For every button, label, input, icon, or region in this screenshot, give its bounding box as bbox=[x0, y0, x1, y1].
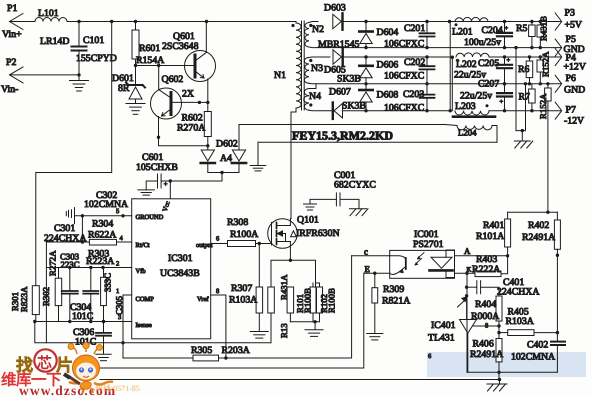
svg-text:22u/25v: 22u/25v bbox=[460, 91, 492, 102]
capacitor C401 224CHXA bbox=[476, 281, 478, 294]
wire N2b bbox=[309, 46, 561, 49]
svg-text:E: E bbox=[365, 264, 370, 274]
svg-text:2SC3648: 2SC3648 bbox=[162, 41, 199, 52]
svg-text:R401: R401 bbox=[483, 220, 504, 231]
svg-text:R222A: R222A bbox=[472, 264, 500, 275]
resistor R301 bbox=[32, 286, 39, 315]
svg-text:R000A: R000A bbox=[471, 311, 499, 322]
svg-text:TL431: TL431 bbox=[428, 333, 455, 344]
wire snubber top bbox=[238, 125, 240, 151]
svg-text:P3: P3 bbox=[565, 8, 575, 19]
svg-text:R2491A: R2491A bbox=[470, 349, 503, 360]
resistor R401 bbox=[505, 219, 511, 247]
wire source spread bbox=[271, 260, 316, 287]
ground D601 bbox=[126, 103, 145, 105]
svg-text:L202: L202 bbox=[456, 59, 477, 70]
diode D602b bbox=[232, 150, 245, 161]
svg-text:R100B: R100B bbox=[303, 288, 313, 313]
resistor R406 bbox=[496, 339, 502, 362]
resistor R152A bbox=[537, 60, 544, 72]
wire emitter bbox=[207, 79, 209, 102]
ground input bbox=[78, 75, 80, 80]
ground C306 bbox=[96, 353, 111, 355]
wire bbox=[344, 56, 452, 58]
resistor R431B bbox=[537, 25, 544, 37]
resistor R152A bbox=[539, 55, 542, 58]
svg-text:C207: C207 bbox=[478, 79, 499, 90]
svg-text:R100B: R100B bbox=[327, 288, 337, 313]
svg-text:R101A: R101A bbox=[476, 231, 504, 242]
svg-text:Q101: Q101 bbox=[297, 215, 319, 226]
svg-text:FEY15.3,RM2.2KD: FEY15.3,RM2.2KD bbox=[292, 129, 393, 143]
capacitor C305 333C bbox=[103, 268, 105, 278]
capacitor C205 22u/25v bbox=[503, 55, 506, 58]
svg-text:COMP: COMP bbox=[136, 296, 155, 303]
resistor R307 bbox=[256, 287, 263, 313]
svg-text:D602: D602 bbox=[216, 139, 238, 150]
svg-text:R154A: R154A bbox=[136, 55, 164, 66]
resistor R309 R821A bbox=[374, 273, 376, 288]
svg-text:P6: P6 bbox=[566, 73, 576, 84]
wire bbox=[489, 110, 561, 112]
ground C001 right bbox=[350, 208, 367, 210]
svg-text:IC301: IC301 bbox=[168, 253, 193, 264]
winding N4 bbox=[304, 89, 309, 111]
inductor L204 bbox=[445, 125, 457, 126]
svg-text:224CHXA: 224CHXA bbox=[497, 287, 539, 298]
wire pin8 bbox=[211, 295, 226, 358]
capacitor C302 102CMNA bbox=[71, 210, 73, 218]
diode D603 bbox=[333, 14, 342, 28]
node Q601 collector bbox=[205, 20, 208, 23]
diode D606 bbox=[365, 57, 367, 66]
diode D608 bbox=[365, 84, 367, 90]
node L201 left bbox=[448, 20, 451, 23]
resistor R302 bbox=[55, 278, 62, 305]
transistor Q601 2SC3648 bbox=[185, 51, 216, 82]
diode D605 SK3B bbox=[333, 50, 342, 64]
diode D607 SK3B bbox=[334, 104, 343, 118]
wire bbox=[10, 21, 36, 23]
choke core bar bbox=[453, 115, 495, 118]
wire comp loop bbox=[35, 322, 271, 343]
svg-text:N1: N1 bbox=[274, 70, 286, 81]
svg-text:C202: C202 bbox=[404, 57, 425, 68]
connector P2 bbox=[10, 67, 24, 83]
wire bus C bbox=[100, 379, 500, 381]
resistor R403 R222A bbox=[475, 271, 501, 277]
node R601 top bbox=[134, 20, 137, 23]
svg-text:C402: C402 bbox=[527, 340, 548, 351]
node C101 top bbox=[77, 20, 80, 23]
svg-text:C201: C201 bbox=[404, 23, 425, 34]
resistor R404 R000A bbox=[496, 296, 502, 321]
svg-text:R601: R601 bbox=[139, 43, 160, 54]
resistor C305box bbox=[101, 277, 107, 305]
resistor R601 R154A bbox=[132, 30, 139, 59]
wire divider top bbox=[508, 211, 558, 213]
wire bus B bbox=[99, 273, 364, 368]
capacitor C101 bbox=[78, 22, 80, 47]
svg-text:R7: R7 bbox=[519, 92, 531, 103]
wire bbox=[498, 321, 500, 339]
svg-text:LR14D: LR14D bbox=[40, 36, 69, 47]
wire pin6 bbox=[211, 243, 228, 245]
connector P7 bbox=[555, 102, 562, 119]
svg-text:8R: 8R bbox=[118, 83, 130, 94]
resistor R13 bbox=[287, 287, 294, 313]
ground R309 bbox=[367, 333, 383, 335]
svg-text:Rt/Ct: Rt/Ct bbox=[136, 242, 150, 249]
svg-text:P7: P7 bbox=[566, 105, 576, 116]
wire Vcc rail bbox=[161, 173, 222, 182]
wire bbox=[10, 74, 80, 76]
svg-text:R406: R406 bbox=[473, 339, 494, 350]
capacitor C303 223C bbox=[69, 268, 71, 291]
svg-text:Vfb: Vfb bbox=[136, 268, 146, 275]
op-amp U IC001 PS2701 box bbox=[390, 250, 455, 278]
wire bbox=[344, 21, 562, 23]
wire vertical pair2 bbox=[451, 57, 453, 110]
svg-text:c: c bbox=[364, 247, 368, 257]
wire sense bottom bbox=[290, 321, 319, 323]
wire D602 bottoms bbox=[208, 165, 239, 173]
svg-text:R6: R6 bbox=[518, 64, 530, 75]
svg-text:155CPYD: 155CPYD bbox=[76, 53, 117, 64]
node bbox=[364, 55, 367, 58]
svg-text:R431B: R431B bbox=[539, 16, 549, 41]
svg-text:+: + bbox=[507, 57, 511, 64]
wire bbox=[135, 22, 137, 31]
wire bbox=[501, 256, 508, 274]
svg-text:C203: C203 bbox=[403, 89, 424, 100]
wire base Q601 bbox=[136, 65, 194, 67]
svg-text:R622A: R622A bbox=[88, 230, 116, 241]
wire pin1 bbox=[123, 295, 132, 358]
svg-text:+: + bbox=[164, 181, 168, 188]
op-amp U IC301 UC3843B box bbox=[132, 199, 211, 339]
node base bbox=[134, 64, 137, 67]
svg-text:K: K bbox=[467, 267, 472, 274]
svg-text:IRFR630N: IRFR630N bbox=[296, 228, 340, 239]
svg-text:P2: P2 bbox=[6, 57, 16, 68]
resistor R401 R101A bbox=[507, 212, 509, 219]
transistor Q602 2X bbox=[151, 88, 182, 119]
resistor R431B bbox=[539, 20, 542, 23]
wire K drop bbox=[466, 273, 468, 372]
svg-text:101C: 101C bbox=[72, 311, 93, 322]
wire c402 bbox=[556, 346, 558, 372]
resistor R5 bbox=[529, 25, 536, 37]
svg-text:105CHXB: 105CHXB bbox=[136, 162, 178, 173]
svg-text:PS2701: PS2701 bbox=[413, 239, 444, 250]
resistor R602 R270A bbox=[204, 112, 211, 137]
svg-text:R5: R5 bbox=[516, 23, 528, 34]
capacitor C207 22u/25v bbox=[503, 82, 506, 85]
wire Q602 collector bbox=[158, 66, 160, 90]
wire N2a bbox=[309, 22, 318, 23]
svg-text:R272A: R272A bbox=[48, 250, 58, 276]
wire snubber rail bottom bbox=[258, 141, 497, 143]
node L202 left bbox=[451, 56, 454, 59]
svg-text:R270A: R270A bbox=[177, 123, 205, 134]
resistor R431A bbox=[268, 287, 275, 313]
wire opto A bbox=[455, 255, 508, 257]
svg-text:+: + bbox=[500, 99, 504, 106]
svg-text:R103A: R103A bbox=[229, 295, 257, 306]
resistor R302 R272A bbox=[58, 268, 60, 279]
resistor R308 R100A bbox=[228, 241, 256, 247]
ground C001 left bbox=[309, 199, 311, 203]
svg-text:8: 8 bbox=[485, 323, 488, 330]
svg-text:R309: R309 bbox=[383, 284, 404, 295]
svg-text:R404: R404 bbox=[475, 299, 496, 310]
node bbox=[364, 109, 367, 112]
wire pin4 bbox=[46, 241, 131, 243]
ground C601 bbox=[138, 189, 155, 191]
resistor R6 bbox=[528, 55, 531, 58]
svg-text:R823A: R823A bbox=[19, 286, 29, 312]
wire Q602 emitter drop bbox=[159, 117, 208, 146]
capacitor C304 101C bbox=[90, 268, 92, 291]
mascot bbox=[64, 342, 113, 394]
ground sense bbox=[305, 329, 323, 331]
svg-text:100u/25v: 100u/25v bbox=[464, 37, 501, 48]
resistor R152A second bbox=[546, 82, 549, 85]
wire bbox=[489, 56, 561, 58]
resistor R405 bbox=[508, 330, 534, 336]
node feed bbox=[110, 20, 113, 23]
node bbox=[364, 20, 367, 23]
transistor Q101 IRFR630N bbox=[268, 219, 298, 249]
svg-text:GROUND: GROUND bbox=[136, 214, 164, 221]
inductor L203 bbox=[455, 111, 489, 115]
svg-text:D607: D607 bbox=[329, 87, 351, 98]
svg-text:MBR1545: MBR1545 bbox=[318, 39, 359, 50]
svg-text:L204: L204 bbox=[458, 128, 477, 138]
node D602 left bbox=[206, 144, 209, 147]
svg-text:R402: R402 bbox=[528, 220, 549, 231]
wire collector bbox=[205, 22, 207, 53]
svg-text:SK3B: SK3B bbox=[337, 74, 361, 85]
svg-text:Vref: Vref bbox=[197, 296, 209, 303]
resistor R305 R203A bbox=[193, 355, 219, 361]
resistor R7 bbox=[531, 84, 533, 89]
svg-text:682CYXC: 682CYXC bbox=[334, 180, 376, 191]
wire N3a bbox=[309, 56, 330, 59]
phototransistor bbox=[405, 258, 407, 269]
resistor R402 bbox=[554, 220, 560, 249]
wire bbox=[310, 198, 336, 200]
svg-text:R100A: R100A bbox=[230, 229, 258, 240]
svg-text:D604: D604 bbox=[377, 27, 399, 38]
connector P4 bbox=[555, 49, 562, 66]
svg-text:Isense: Isense bbox=[136, 322, 152, 329]
diode D604 MBR1545 bbox=[365, 22, 367, 32]
capacitor C306 101C bbox=[102, 320, 105, 323]
wire vertical pair bbox=[449, 22, 451, 111]
wire feed to R301 bbox=[36, 22, 112, 286]
wire N4b bbox=[309, 109, 333, 112]
svg-text:IC401: IC401 bbox=[431, 320, 456, 331]
wire pin3 bbox=[34, 321, 131, 323]
svg-text:芯: 芯 bbox=[37, 355, 52, 372]
svg-text:R307: R307 bbox=[231, 283, 252, 294]
selection highlight bbox=[427, 352, 586, 377]
ground TL431 bbox=[499, 380, 501, 384]
watermark dzsc bbox=[1, 349, 140, 396]
wire opto c bbox=[352, 255, 390, 257]
capacitor C601 105CHXB bbox=[157, 174, 159, 188]
wire bus A bbox=[123, 357, 193, 359]
svg-text:R152A: R152A bbox=[538, 93, 548, 119]
svg-text:L203: L203 bbox=[455, 101, 476, 112]
wire drain bbox=[289, 218, 291, 225]
wire opto e bbox=[364, 272, 390, 274]
wire pin5 bbox=[75, 215, 132, 217]
svg-text:106CFXC: 106CFXC bbox=[384, 39, 424, 50]
svg-text:+: + bbox=[505, 25, 509, 32]
wire N3b bbox=[309, 82, 561, 85]
svg-text:1: 1 bbox=[116, 288, 119, 295]
svg-text:R152A: R152A bbox=[541, 51, 551, 77]
wire Q602 base bbox=[171, 101, 208, 103]
svg-text:8: 8 bbox=[216, 288, 219, 295]
wire bbox=[35, 315, 37, 322]
capacitor C402 102CMNA bbox=[551, 341, 565, 343]
resistor R102 bbox=[317, 287, 323, 313]
wire Vcc stub bbox=[169, 181, 171, 199]
svg-text:106CFXC: 106CFXC bbox=[384, 71, 424, 82]
svg-text:N2: N2 bbox=[312, 24, 324, 35]
resistor R304 R622A bbox=[89, 239, 116, 245]
svg-text:R223A: R223A bbox=[86, 256, 114, 267]
svg-text:C204: C204 bbox=[482, 25, 503, 36]
svg-text:102CMNA: 102CMNA bbox=[511, 352, 555, 363]
wire gate lead bbox=[259, 243, 271, 245]
inductor L101 bbox=[35, 18, 67, 22]
wire N4a bbox=[309, 84, 316, 89]
wire k bbox=[81, 216, 83, 242]
svg-text:R305: R305 bbox=[191, 345, 212, 356]
resistor R101 bbox=[310, 287, 316, 313]
svg-text:+12V: +12V bbox=[564, 62, 586, 73]
svg-text:R304: R304 bbox=[92, 219, 113, 230]
svg-text:A4: A4 bbox=[220, 153, 232, 164]
winding N2 bbox=[305, 23, 309, 48]
capacitor C204 100u/25v bbox=[503, 20, 506, 23]
node Q602 base bbox=[206, 101, 209, 104]
transformer T primary N1 bbox=[296, 23, 301, 108]
wire bus A cont bbox=[219, 256, 352, 358]
resistor R6 bbox=[526, 61, 533, 78]
connector P5 bbox=[555, 39, 562, 56]
capacitor C203 bbox=[426, 84, 428, 95]
svg-text:R2491A: R2491A bbox=[522, 232, 555, 243]
wire bbox=[67, 21, 296, 23]
ground small C302 bbox=[65, 212, 67, 216]
svg-text:2: 2 bbox=[116, 261, 119, 268]
svg-text:Vin+: Vin+ bbox=[2, 29, 22, 40]
svg-text:102CMNA: 102CMNA bbox=[84, 199, 128, 210]
wire bbox=[207, 102, 209, 111]
svg-text:333C: 333C bbox=[103, 273, 113, 292]
svg-text:P1: P1 bbox=[7, 3, 17, 14]
svg-text:C101: C101 bbox=[83, 35, 104, 46]
wire rtct drop bbox=[45, 242, 47, 343]
svg-text:L101: L101 bbox=[38, 8, 59, 19]
ground R307 bbox=[250, 331, 268, 333]
svg-text:R203A: R203A bbox=[222, 345, 250, 356]
wire tl ref bbox=[473, 325, 499, 327]
svg-text:Q602: Q602 bbox=[162, 74, 184, 85]
wire pin2 bbox=[46, 267, 131, 269]
wire bbox=[146, 181, 157, 190]
node Q602 collector tie bbox=[157, 64, 160, 67]
resistor R152A2 bbox=[545, 88, 552, 101]
capacitor C201 bbox=[425, 20, 428, 23]
svg-text:+5V: +5V bbox=[565, 20, 583, 31]
resistor R307 R103A bbox=[258, 244, 260, 288]
wire opto K bbox=[455, 272, 476, 274]
opto LED bbox=[431, 257, 452, 268]
svg-text:GND: GND bbox=[564, 85, 585, 96]
resistor R402 R2491A bbox=[556, 212, 558, 220]
svg-text:D603: D603 bbox=[324, 3, 346, 14]
svg-text:C205: C205 bbox=[478, 58, 499, 69]
svg-text:N3: N3 bbox=[311, 63, 323, 74]
resistor R309 bbox=[372, 288, 378, 303]
inductor L201 bbox=[455, 17, 488, 21]
svg-text:R103A: R103A bbox=[506, 316, 534, 327]
svg-text:N4: N4 bbox=[309, 91, 321, 102]
svg-text:R821A: R821A bbox=[382, 296, 410, 307]
winding N3 bbox=[304, 58, 309, 84]
capacitor C202 bbox=[425, 55, 428, 58]
inductor L202 bbox=[456, 53, 489, 57]
wire snubber rail top bbox=[239, 124, 445, 126]
svg-text:A: A bbox=[464, 246, 471, 256]
zener D601 8R bbox=[126, 83, 145, 88]
wire gate bbox=[256, 243, 272, 245]
svg-text:106CFXC: 106CFXC bbox=[384, 103, 424, 114]
svg-text:R302: R302 bbox=[41, 287, 51, 306]
wire bus D bbox=[467, 371, 557, 373]
connector P3 bbox=[555, 13, 562, 30]
svg-text:L201: L201 bbox=[452, 27, 473, 38]
svg-text:Vin-: Vin- bbox=[1, 84, 18, 95]
svg-text:-12V: -12V bbox=[564, 116, 584, 127]
ground secondary bbox=[514, 46, 517, 49]
svg-text:UC3843B: UC3843B bbox=[160, 268, 200, 279]
wire bbox=[343, 110, 451, 112]
svg-text:2X: 2X bbox=[182, 89, 194, 100]
transformer core bbox=[301, 21, 303, 110]
ground snubber bbox=[257, 142, 259, 165]
resistor R5 bbox=[530, 20, 533, 23]
diode D602a bbox=[201, 150, 214, 161]
svg-text:R308: R308 bbox=[227, 217, 248, 228]
svg-text:D606: D606 bbox=[377, 60, 399, 71]
svg-text:D608: D608 bbox=[377, 90, 399, 101]
connector P6 bbox=[555, 75, 562, 92]
resistor R7 bbox=[529, 89, 536, 103]
svg-text:R13: R13 bbox=[279, 323, 289, 338]
connector P1 bbox=[10, 14, 24, 30]
wire source bbox=[286, 241, 291, 243]
